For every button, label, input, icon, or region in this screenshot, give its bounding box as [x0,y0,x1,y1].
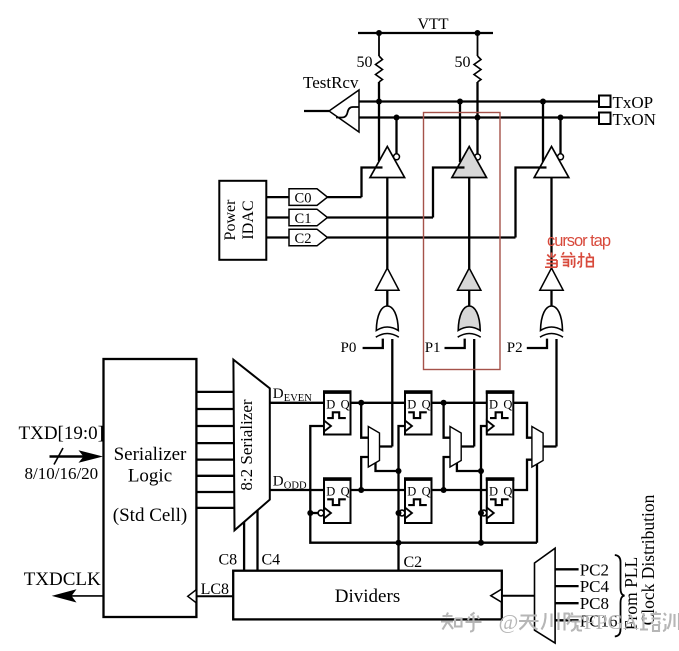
box Serializer Logic [104,359,197,617]
svg-text:Q: Q [503,484,512,498]
svg-text:Q: Q [341,484,350,498]
svg-text:D: D [326,397,335,411]
wire IDAC to C1 tag [266,216,289,218]
svg-text:D: D [326,484,335,498]
junction VTT-R2 [475,30,481,36]
junction clock col3 FF6 [478,510,484,516]
junction TxOP-driver2 [457,99,463,105]
mux M3 2:1 [532,427,543,468]
wire mux3 output [543,445,556,447]
wire IDAC to C0 tag [266,196,289,198]
wire driver3 output [542,102,544,163]
tag C2 [289,229,328,247]
svg-text:Q: Q [503,397,512,411]
svg-text:@: @ [499,610,519,634]
svg-text:C1: C1 [295,211,312,227]
watermark zhihu CJK [441,612,679,632]
svg-text:C0: C0 [295,191,312,207]
wire C0 net [328,196,362,198]
wire mux1 select [376,463,399,471]
wire buffer1 input stub [386,290,388,306]
svg-text:TestRcv: TestRcv [303,73,359,92]
svg-text:C2: C2 [404,554,423,571]
wire mux3 select [536,464,538,543]
wire TXDCLK arrow [52,589,104,602]
wire DEVEN net [270,402,324,404]
flip-flop FF1 [323,392,352,435]
label DEVEN [273,386,312,404]
svg-text:D: D [407,397,416,411]
junction clock col2 bottom [396,540,402,546]
pin TxON pad [599,113,611,125]
wire mux1 even input [361,403,369,438]
junction VTT-R1 [376,30,382,36]
wire driver1 input column [386,178,388,269]
label dangqianpai (red CJK) [545,252,593,267]
wire PC4 stub [555,585,579,587]
op-amp TestRcv receiver [329,90,359,132]
junction mux2 top tap [441,400,447,406]
svg-text:Clock Distribution: Clock Distribution [638,494,658,625]
wire clockmux to dividers [502,595,535,597]
svg-text:IDAC: IDAC [240,200,257,239]
buffer B2 (shaded) [458,268,481,290]
svg-text:VTT: VTT [417,16,448,33]
svg-text:50: 50 [357,54,373,71]
junction mux2 bottom tap [441,487,447,493]
junction mux1 select [396,468,402,474]
junction mux1 top tap [358,400,364,406]
wire C4 line [256,510,258,570]
svg-text:D: D [273,386,284,402]
junction clock col1 FF4 [307,510,313,516]
wire FF1.Q to FF2.D [351,402,406,404]
svg-text:TxON: TxON [613,110,656,129]
wire clock col1 to FF4 bubble [310,512,318,514]
wire C2 clock vertical [399,426,406,571]
svg-text:TXDCLK: TXDCLK [24,569,101,590]
wire clock col2 to FF5 bubble [397,512,400,514]
wire P1 select input [445,339,465,348]
driver U1 triangle [370,147,405,178]
wire driver2 output [459,102,461,163]
svg-text:C4: C4 [262,552,281,569]
svg-text:D: D [407,484,416,498]
flip-flop FF3 [486,392,515,435]
svg-text:8/10/16/20: 8/10/16/20 [25,464,99,483]
box Dividers [233,571,502,620]
label DODD [273,474,307,492]
arrowhead LC8 open [188,590,197,603]
wire serializer bus lines [196,392,234,508]
wire mux2 odd input [444,457,451,490]
resistor R1 50 [376,33,383,82]
bubble driver3 [558,154,564,160]
buffer B3 [540,268,563,290]
wire mux1 odd input [361,457,369,490]
highlight box cursor tap [424,113,501,370]
junction mux2 select [478,468,484,474]
arrowhead dividers clock open [491,589,502,602]
wire FF5.Q to FF6.D [432,489,487,491]
svg-text:C2: C2 [295,231,312,247]
wire PC8 stub [555,602,579,604]
wire TXD bus arrow [50,448,104,465]
svg-text:Q: Q [422,397,431,411]
wire P2 select input [527,339,547,348]
svg-text:50: 50 [455,54,471,71]
wire driver2 input column [468,178,470,269]
wire FF3.Q to mux3 [513,403,533,438]
xor-gate X1 [376,306,399,337]
wire FF4.Q to FF5.D [351,489,406,491]
wire driver3 input column [550,178,552,269]
wire DODD net [270,489,324,491]
wire C2 net [328,236,516,238]
svg-text:P0: P0 [341,340,357,356]
wire PC2 stub [555,568,579,570]
wire R1 to driver1 [378,82,380,161]
flip-flop FF4 [318,479,351,524]
driver U3 triangle [534,147,569,178]
junction TxON-driver2 [475,115,481,121]
wire xor1 data input [391,339,393,447]
wire buffer2 input stub [468,290,470,306]
watermark latin part [499,610,640,634]
wire C1 to driver2 bias [433,168,465,218]
svg-text:D: D [273,474,284,490]
wire C2 to driver3 bias [516,168,547,238]
svg-text:FPGA: FPGA [584,610,639,634]
wire xor2 data input [473,339,475,447]
svg-text:D: D [489,397,498,411]
svg-text:TXD[19:0]: TXD[19:0] [19,423,104,444]
mux M2 2:1 [450,427,461,468]
wire C0 to driver1 bias [362,168,383,198]
mux clock select [535,548,556,643]
mux M1 2:1 [368,427,379,468]
junction clock col2 FF5 [396,510,402,516]
resistor R2 50 [474,33,481,82]
wire TxON net [359,116,599,118]
junction TxON-driver3 [558,115,564,121]
wire mux1 output [380,445,393,447]
wire VTT rail [358,32,493,34]
junction mux1 bottom tap [358,487,364,493]
junction TxON-driver1 [394,115,400,121]
svg-text:P2: P2 [507,340,523,356]
wire LC8 [196,595,233,597]
svg-text:P1: P1 [425,340,441,356]
wire mux2 output [461,445,474,447]
svg-text:Dividers: Dividers [335,586,400,607]
pin TxOP pad [599,96,611,108]
brace PLL clocks [615,555,625,637]
wire R2 to driver2 bubble [476,82,478,154]
wire driver3 inverted output [559,118,561,154]
wire clock col1 vertical [310,426,537,543]
wire P0 select input [363,339,383,348]
svg-text:Serializer: Serializer [114,444,187,465]
wire xor3 data input [555,339,557,447]
tag C1 [289,209,328,227]
driver U2 triangle (cursor tap, shaded) [452,147,487,178]
wire mux2 select [457,463,481,471]
wire C8 line [243,522,245,571]
wire FF2.Q to FF3.D [432,402,487,404]
buffer B1 [376,268,399,290]
svg-text:8:2 Serializer: 8:2 Serializer [237,399,256,490]
junction TxOP-driver1 [376,99,382,105]
label Power IDAC [222,199,257,241]
tag C0 [289,189,328,207]
wire C1 net [328,216,434,218]
wire clock col3 vertical [481,426,487,543]
svg-text:cursor tap: cursor tap [547,232,611,250]
wire PC16 stub [555,619,579,621]
junction clock col3 bottom [478,540,484,546]
svg-text:Logic: Logic [128,466,172,487]
svg-text:Q: Q [422,484,431,498]
svg-text:C8: C8 [219,552,238,569]
wire buffer3 input stub [550,290,552,306]
flip-flop FF5 [399,479,432,524]
wire FF6.Q to mux3 [513,460,533,490]
flip-flop FF2 [404,392,433,435]
wire mux2 even input [444,403,451,438]
wire TestRcv output [304,110,329,112]
svg-text:Q: Q [341,397,350,411]
svg-text:Power: Power [222,199,239,241]
xor-gate X2 (shaded) [458,306,481,337]
wire IDAC to C2 tag [266,236,289,238]
mux 8:2 Serializer [233,360,269,531]
bubble driver1 [394,154,400,160]
box Power IDAC [219,181,266,260]
label Serializer Logic (Std Cell) [113,444,187,526]
wire driver1 inverted output [395,118,397,154]
svg-text:(Std Cell): (Std Cell) [113,505,187,526]
svg-text:D: D [489,484,498,498]
svg-text:LC8: LC8 [201,581,229,598]
bubble driver2 [475,154,481,160]
junction TxOP-driver3 [540,99,546,105]
xor-gate X3 [540,306,563,337]
wire TxOP net [359,100,599,102]
flip-flop FF6 [481,479,514,524]
